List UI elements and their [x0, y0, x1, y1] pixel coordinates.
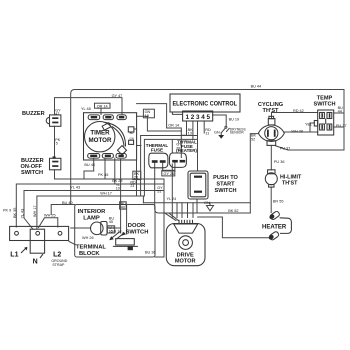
- svg-text:YL 43: YL 43: [70, 186, 80, 190]
- svg-text:START: START: [216, 182, 235, 188]
- svg-text:GY 26: GY 26: [164, 172, 175, 176]
- svg-text:MOTOR: MOTOR: [175, 259, 196, 265]
- wire motor pin2: [176, 203, 178, 218]
- label BU40 boxed: [120, 202, 127, 209]
- temp switch S3: [314, 110, 333, 135]
- svg-text:FUSE: FUSE: [151, 147, 163, 152]
- svg-text:YL 24: YL 24: [167, 197, 177, 201]
- wire section boundary inner: [144, 139, 197, 196]
- svg-text:1 2 3 4 5: 1 2 3 4 5: [186, 114, 211, 121]
- wire lamp left: [71, 227, 91, 229]
- svg-text:PK 45: PK 45: [98, 173, 108, 177]
- svg-text:PUSH TO: PUSH TO: [213, 175, 238, 181]
- wire BU44 timer B1 stub: [84, 158, 94, 179]
- push to start switch S2: [188, 171, 208, 199]
- label thermal fuse: [146, 143, 169, 153]
- label interior lamp: [78, 209, 107, 222]
- wire RD42 cycling to temp switch: [272, 113, 318, 118]
- wire lamp right: [107, 227, 121, 229]
- svg-text:45: 45: [109, 220, 113, 224]
- door switch S4: [109, 232, 138, 251]
- timer contact sq1: [128, 127, 134, 132]
- svg-text:28: 28: [176, 146, 180, 150]
- svg-text:BU 44: BU 44: [251, 85, 262, 89]
- svg-text:GY 47: GY 47: [112, 94, 123, 98]
- ground GN at drive motor: [207, 203, 214, 211]
- svg-text:RD 42: RD 42: [293, 109, 304, 113]
- cycling thermostat TH1: [258, 116, 284, 145]
- label push to start: [213, 175, 238, 194]
- svg-text:10: 10: [116, 186, 120, 190]
- svg-text:BU 40: BU 40: [62, 201, 73, 205]
- timer terminal B2: [102, 154, 113, 159]
- label dryness sensor: [230, 127, 247, 134]
- buzzer BZ1: [46, 115, 61, 126]
- timer terminal B1: [88, 154, 100, 159]
- terminal block TB1: [10, 226, 69, 258]
- svg-text:YL 48: YL 48: [81, 107, 91, 111]
- wire BR55 hi-limit to heater: [270, 187, 272, 212]
- node B2 drop: [104, 158, 106, 179]
- label thermal fuse heater: [176, 140, 197, 153]
- label BK26 boxed: [133, 171, 141, 179]
- svg-text:GN: GN: [204, 201, 210, 205]
- wire 12345 t1: [181, 121, 186, 135]
- wire motor fan diagonal 2: [169, 213, 179, 221]
- svg-text:52: 52: [251, 137, 255, 141]
- wire motor pin4: [187, 203, 189, 218]
- svg-text:ELECTRONIC CONTROL: ELECTRONIC CONTROL: [173, 101, 238, 108]
- svg-text:BR: BR: [130, 131, 134, 135]
- svg-text:TH'ST: TH'ST: [263, 108, 280, 114]
- interior lamp DS1: [91, 222, 108, 236]
- wire heater bottom to motor: [198, 217, 269, 238]
- timer terminal T3: [117, 115, 126, 120]
- svg-text:BLOCK: BLOCK: [79, 251, 100, 257]
- svg-text:BU 19: BU 19: [229, 117, 240, 121]
- svg-text:TERMINAL: TERMINAL: [76, 245, 106, 251]
- svg-text:WH 38: WH 38: [291, 130, 303, 134]
- wire OR14 stub upper: [100, 109, 102, 115]
- timer cam arc2: [112, 127, 124, 147]
- timer cam lobe: [102, 123, 111, 131]
- wire OR14 timer to fuse2: [137, 104, 182, 158]
- wire BK52 cycling left: [250, 134, 258, 213]
- timer terminal T2: [103, 115, 113, 120]
- svg-text:11: 11: [205, 132, 209, 136]
- svg-text:5: 5: [56, 141, 58, 145]
- label WH16 boxed: [107, 226, 114, 234]
- svg-text:PU 37: PU 37: [336, 124, 347, 128]
- svg-text:BUZZER: BUZZER: [22, 111, 45, 117]
- wire EC hook to 12345: [172, 112, 182, 114]
- wire motor pin3: [181, 203, 183, 218]
- drive motor M1: [166, 220, 205, 266]
- svg-text:GN 13: GN 13: [111, 230, 122, 234]
- label RD21: [130, 181, 136, 189]
- svg-text:STRAP: STRAP: [52, 263, 65, 267]
- wire BU19 to ground: [213, 115, 227, 126]
- timer contact sq2: [129, 140, 134, 144]
- wire YL43 drop: [24, 191, 33, 230]
- svg-text:INTERIOR: INTERIOR: [78, 209, 107, 215]
- leader dryness sensor: [227, 128, 230, 131]
- label timer motor: [89, 130, 112, 145]
- svg-text:WH 17: WH 17: [33, 205, 37, 217]
- wire YL24 fuse2 to motor: [171, 164, 173, 218]
- svg-text:GN: GN: [130, 137, 134, 141]
- wire 12345 t2: [192, 121, 194, 139]
- svg-text:L2: L2: [53, 252, 61, 259]
- wire buzzer to switch: [54, 126, 56, 158]
- wire PU36 cycling to hi-limit: [270, 145, 272, 170]
- wire GY51 fuse1 down: [155, 163, 251, 213]
- callout terminal block: [69, 242, 76, 246]
- wire BU44 temp switch right top: [334, 112, 344, 114]
- wire GY47 buzzer to timer: [55, 98, 123, 115]
- label hi-limit: [280, 175, 302, 187]
- wire GN18 lower exit: [137, 145, 141, 147]
- svg-text:MOTOR: MOTOR: [89, 137, 112, 144]
- timer box T1: [84, 113, 137, 160]
- svg-text:WH 17: WH 17: [100, 191, 112, 195]
- svg-text:L1: L1: [10, 252, 18, 259]
- label ground strap: [51, 259, 67, 267]
- ground GN at electronic control: [218, 135, 224, 139]
- buzzer on-off switch S1: [50, 156, 61, 169]
- svg-text:SWITCH: SWITCH: [313, 102, 335, 108]
- wire YEL notch: [310, 123, 314, 132]
- label drive motor: [175, 253, 196, 265]
- wire GN18 link: [137, 116, 182, 131]
- label box: [162, 170, 175, 176]
- svg-text:51: 51: [157, 190, 161, 194]
- wire motor pin5: [192, 203, 194, 218]
- label door switch: [126, 223, 149, 236]
- svg-text:BK 35: BK 35: [13, 208, 17, 218]
- svg-text:BK 52: BK 52: [228, 209, 238, 213]
- svg-text:GN: GN: [214, 130, 220, 134]
- wire WH25 stub from lamp box: [51, 205, 74, 215]
- label cycling thst: [258, 102, 283, 114]
- wire door drop: [142, 196, 144, 203]
- wire BK35 left: [16, 184, 164, 227]
- svg-text:TIMER: TIMER: [90, 130, 110, 137]
- svg-text:DOOR: DOOR: [128, 223, 146, 229]
- svg-text:47: 47: [55, 112, 59, 116]
- svg-text:BU 36: BU 36: [145, 250, 156, 254]
- label L1 N L2: [10, 252, 61, 266]
- svg-text:21: 21: [130, 184, 134, 188]
- wire 12345 t3 to push start: [197, 121, 199, 171]
- svg-text:LAMP: LAMP: [83, 216, 100, 222]
- hi-limit thermostat TH2: [265, 170, 277, 187]
- wire WH25 jumper: [39, 218, 58, 228]
- wire PU37 diagonal to cycling: [276, 146, 289, 150]
- svg-text:TH'ST: TH'ST: [282, 181, 298, 187]
- wire motor fan diagonal 1: [165, 213, 176, 220]
- svg-text:SWITCH: SWITCH: [21, 170, 43, 176]
- svg-text:SENSOR: SENSOR: [230, 131, 245, 135]
- wire PU37 temp switch right bottom: [334, 126, 344, 128]
- wire RD11: [203, 121, 205, 133]
- timer cam arc1: [105, 122, 126, 146]
- thermal fuse F1: [149, 153, 168, 168]
- thermal fuse F2 heater: [170, 153, 187, 167]
- wire labels small: [3, 85, 347, 255]
- wire door switch feed 2: [126, 205, 128, 235]
- wire door run: [143, 202, 250, 204]
- labels: [21, 111, 45, 176]
- label box: [143, 109, 154, 118]
- svg-text:BU 44: BU 44: [84, 163, 95, 167]
- label terminal block: [76, 245, 106, 257]
- svg-text:26: 26: [134, 176, 138, 180]
- timer terminal T1: [88, 115, 100, 120]
- svg-text:SWITCH: SWITCH: [126, 230, 149, 236]
- wire fuse2 upper stub: [171, 139, 173, 153]
- svg-text:13: 13: [188, 132, 192, 136]
- console enclosure lamp box: [75, 205, 155, 258]
- svg-text:HEATER: HEATER: [262, 225, 287, 231]
- wire BU44 top run: [71, 90, 344, 205]
- svg-text:YL 43: YL 43: [20, 209, 24, 219]
- svg-text:WH 26: WH 26: [82, 236, 94, 240]
- svg-text:OR 14: OR 14: [168, 124, 179, 128]
- label GY28: [176, 143, 182, 151]
- svg-text:PU 37: PU 37: [280, 146, 291, 150]
- wire timer contact to box edge: [134, 128, 137, 130]
- wire GY26 link: [163, 163, 175, 172]
- svg-text:PU 36: PU 36: [274, 160, 285, 164]
- label temp switch: [313, 96, 335, 108]
- svg-text:PK 9: PK 9: [3, 209, 11, 213]
- wire WH38 cycling to temp switch: [284, 131, 317, 133]
- svg-text:WH 25: WH 25: [44, 214, 56, 218]
- wire PK45 buzzer switch to timer B2: [55, 170, 165, 179]
- wire YL43 left: [24, 190, 164, 192]
- timer terminal B3: [116, 154, 126, 159]
- svg-text:SWITCH: SWITCH: [214, 188, 236, 194]
- heater HTR1: [268, 211, 292, 241]
- wire RD21 timer down: [136, 160, 138, 196]
- timer motor circle: [85, 122, 115, 152]
- wire WH17 run: [37, 196, 143, 229]
- wire door switch feed: [120, 159, 122, 233]
- wire BK25 stub: [114, 158, 116, 184]
- svg-text:YEL: YEL: [305, 123, 312, 127]
- wire section boundary outer: [141, 136, 198, 197]
- timer cam diamond: [117, 146, 126, 155]
- electronic control U1: [170, 94, 240, 121]
- wire right drop: [155, 179, 164, 257]
- svg-text:N: N: [33, 258, 38, 265]
- svg-text:44: 44: [338, 110, 342, 114]
- label box: [95, 103, 111, 108]
- wire push start bottom: [196, 199, 198, 213]
- svg-text:BR 55: BR 55: [273, 199, 284, 203]
